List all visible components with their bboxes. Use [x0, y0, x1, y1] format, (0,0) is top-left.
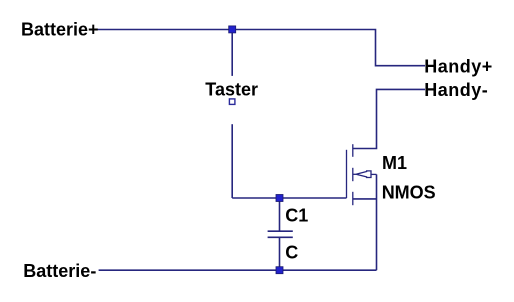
svg-text:Handy-: Handy-: [424, 80, 488, 100]
svg-text:Handy+: Handy+: [424, 56, 493, 76]
svg-text:NMOS: NMOS: [382, 183, 436, 203]
svg-text:C1: C1: [285, 206, 308, 226]
svg-text:Taster: Taster: [205, 79, 258, 99]
svg-text:Batterie-: Batterie-: [23, 261, 96, 281]
svg-text:C: C: [285, 243, 298, 263]
svg-text:M1: M1: [382, 153, 407, 173]
svg-text:Batterie+: Batterie+: [21, 20, 99, 40]
